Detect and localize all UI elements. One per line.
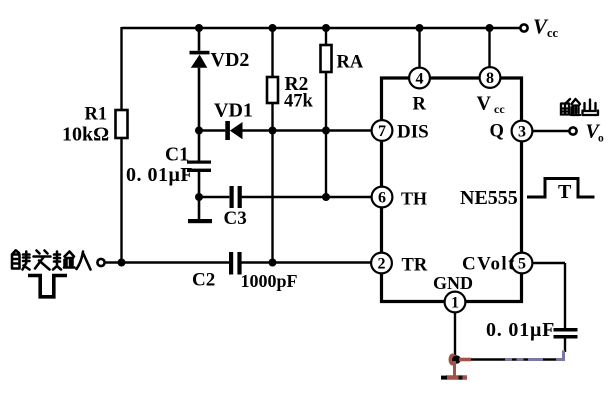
svg-text:GND: GND: [433, 273, 473, 293]
junction dots TH row: [195, 193, 330, 201]
pin 4 R: [409, 68, 430, 115]
svg-text:R: R: [413, 95, 427, 115]
wire R2 vertical: [271, 27, 273, 263]
junction dots on rail: [195, 24, 494, 32]
waveform output pulse with T label: [527, 179, 595, 204]
resistor R2: [267, 74, 314, 112]
waveform trigger pulse (negative): [28, 276, 67, 297]
wire pin4 to rail: [418, 27, 420, 68]
svg-text:Q: Q: [490, 122, 504, 142]
svg-text:C2: C2: [192, 270, 215, 291]
svg-text:V: V: [477, 93, 492, 115]
wire pin1 to ground: [454, 312, 456, 355]
ground (bottom, red retouched): [441, 354, 471, 380]
pin 3 Q: [490, 121, 533, 142]
svg-text:3: 3: [518, 124, 526, 141]
svg-text:10kΩ: 10kΩ: [62, 124, 109, 146]
svg-text:VD2: VD2: [211, 49, 250, 71]
pin 8 Vcc: [477, 67, 506, 116]
svg-text:0. 01μF: 0. 01μF: [126, 164, 193, 186]
diode VD1: [214, 100, 253, 141]
svg-text:1: 1: [451, 295, 459, 312]
svg-text:RA: RA: [337, 53, 364, 73]
svg-text:DIS: DIS: [397, 122, 429, 143]
svg-text:CVolt: CVolt: [462, 254, 516, 275]
svg-text:TH: TH: [401, 189, 427, 209]
resistor R1: [62, 105, 128, 146]
wire TH row: [199, 196, 371, 198]
wire pin5 to bypass capacitor: [532, 263, 565, 328]
label 触发输入 (trigger input): [12, 251, 91, 270]
svg-text:5: 5: [518, 256, 526, 273]
svg-text:0. 01μF: 0. 01μF: [486, 319, 555, 341]
pin 2 TR: [371, 253, 428, 276]
wire VD2/C1 vertical: [198, 27, 201, 220]
pin 7 DIS: [372, 120, 429, 142]
terminal Vo (output): [569, 121, 604, 145]
ground (C1 bottom): [188, 219, 212, 223]
svg-text:2: 2: [378, 256, 386, 273]
wire pin3 to output terminal: [532, 130, 569, 132]
IC label NE555: [460, 187, 518, 209]
wire pin8 to rail: [488, 27, 490, 67]
resistor RA: [321, 45, 364, 73]
wire top Vcc rail: [122, 27, 520, 29]
junction dots TR row: [118, 259, 277, 267]
svg-text:cc: cc: [547, 26, 559, 40]
terminal Vcc (top right): [520, 15, 558, 41]
wire blue retouch segments on ground return: [505, 351, 564, 362]
pin 1 GND: [433, 273, 473, 312]
wire TR row: [106, 261, 372, 263]
svg-text:TR: TR: [402, 256, 428, 276]
terminal trigger input: [97, 259, 104, 266]
svg-text:8: 8: [486, 70, 494, 87]
svg-text:NE555: NE555: [460, 187, 518, 209]
capacitor 0.01uF (CVolt bypass): [486, 319, 578, 341]
pin 6 TH: [372, 187, 427, 209]
capacitor C3: [224, 186, 247, 229]
svg-text:47k: 47k: [284, 92, 314, 112]
pin 5 CVolt: [462, 253, 532, 275]
zener diode VD2: [190, 49, 250, 71]
capacitor C1: [126, 145, 211, 187]
wire DIS row: [199, 129, 371, 131]
wire RA vertical: [325, 27, 327, 197]
wire bypass capacitor bottom to ground: [460, 339, 565, 360]
svg-text:7: 7: [378, 123, 386, 140]
svg-text:4: 4: [416, 71, 424, 88]
svg-text:1000pF: 1000pF: [241, 271, 298, 291]
capacitor C2: [192, 252, 298, 291]
svg-text:R1: R1: [85, 105, 108, 125]
svg-text:VD1: VD1: [214, 100, 253, 122]
wire left vertical (R1 branch): [120, 27, 122, 263]
svg-text:T: T: [558, 181, 572, 203]
svg-text:C3: C3: [224, 208, 247, 229]
svg-text:o: o: [598, 133, 604, 145]
label 输出 (output): [561, 99, 598, 115]
svg-text:C1: C1: [165, 145, 189, 166]
junction dots DIS row: [195, 127, 330, 135]
IC NE555 box outline: [382, 78, 522, 302]
svg-text:cc: cc: [494, 102, 505, 116]
svg-text:6: 6: [378, 190, 386, 207]
